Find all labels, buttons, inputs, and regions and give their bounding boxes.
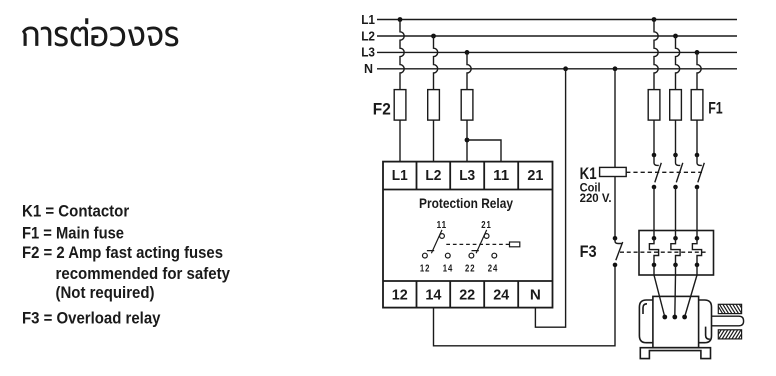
motor terminal node 3 bbox=[682, 315, 687, 320]
svg-text:L2: L2 bbox=[361, 29, 375, 43]
svg-text:11: 11 bbox=[437, 220, 448, 231]
svg-text:L3: L3 bbox=[459, 167, 475, 184]
motor terminal node 1 bbox=[662, 315, 667, 320]
bearing hatch lower bbox=[718, 330, 741, 339]
wire relay 14 to F3aux (control loop) bbox=[434, 267, 616, 346]
overload heater F3a bbox=[649, 236, 658, 267]
node L3-b bbox=[695, 50, 700, 55]
relay internal contact A common ring bbox=[440, 234, 445, 239]
wire overload F3a to motor bbox=[654, 265, 665, 317]
wire coil K1 to contact F3aux bbox=[614, 177, 616, 239]
relay internal contact B common ring bbox=[484, 234, 489, 239]
bus L1 wire bbox=[377, 19, 737, 21]
motor right end cap bbox=[699, 300, 712, 343]
overload relay F3 box bbox=[639, 231, 714, 276]
wire overload F3b to motor bbox=[674, 265, 677, 317]
svg-text:22: 22 bbox=[465, 263, 476, 274]
relay internal contact B terminal 24 ring bbox=[492, 253, 497, 258]
svg-text:22: 22 bbox=[459, 286, 475, 303]
bus N wire bbox=[377, 68, 737, 70]
motor M body center block bbox=[653, 296, 699, 347]
svg-text:N: N bbox=[364, 62, 373, 76]
motor highlight arc right bbox=[706, 327, 710, 340]
svg-text:L1: L1 bbox=[361, 13, 375, 27]
wire overload F3c to motor bbox=[685, 265, 697, 317]
wire branch to relay terminal 11 bbox=[467, 140, 501, 162]
svg-text:Protection Relay: Protection Relay bbox=[419, 195, 513, 211]
svg-text:F1: F1 bbox=[708, 99, 723, 117]
wire drop b (L2 to fuse F2b) bbox=[434, 36, 438, 90]
relay internal actuator box bbox=[510, 242, 520, 247]
overload heater F3b bbox=[671, 236, 680, 267]
wire fuse F1b to contact K1b bbox=[675, 120, 677, 155]
fuse F1b bbox=[670, 90, 682, 121]
wire N to coil K1 bbox=[614, 69, 616, 168]
wire contact K1a to overload F3a bbox=[653, 187, 655, 238]
motor highlight arc left bbox=[643, 304, 647, 314]
svg-text:F3: F3 bbox=[580, 243, 597, 261]
node L1-b bbox=[652, 17, 657, 22]
wire fuse F2c to relay L3 bbox=[466, 120, 468, 162]
wire drop d (L1 to fuse F1a) bbox=[654, 20, 658, 90]
svg-text:220 V.: 220 V. bbox=[580, 191, 612, 205]
motor shaft bbox=[712, 316, 744, 326]
svg-text:12: 12 bbox=[420, 263, 431, 274]
wire fuse F2a to relay L1 bbox=[399, 120, 401, 162]
bus L3 wire bbox=[377, 51, 737, 53]
wire N to relay terminal N bbox=[535, 69, 565, 327]
protection relay U1 box bbox=[383, 162, 553, 308]
motor left end cap bbox=[639, 300, 653, 343]
relay internal contact A blade bbox=[427, 230, 442, 253]
wire contact K1b to overload F3b bbox=[675, 187, 677, 238]
relay internal contact B terminal 22 ring bbox=[469, 253, 474, 258]
svg-text:11: 11 bbox=[493, 167, 509, 184]
dashed link K1 coil to contacts bbox=[626, 171, 702, 173]
node L2-a bbox=[431, 34, 436, 39]
svg-text:21: 21 bbox=[527, 167, 543, 184]
contact F3aux (NC) bbox=[613, 236, 623, 267]
svg-text:recommended for safety: recommended for safety bbox=[56, 265, 231, 283]
wire fuse F1c to contact K1c bbox=[696, 120, 698, 155]
fuse F1a bbox=[648, 90, 660, 121]
wire contact K1c to overload F3c bbox=[696, 187, 698, 238]
relay bottom terminal row line bbox=[383, 280, 553, 282]
svg-text:(Not required): (Not required) bbox=[56, 284, 155, 302]
node L2-b bbox=[673, 34, 678, 39]
svg-text:21: 21 bbox=[481, 220, 492, 231]
svg-text:12: 12 bbox=[392, 286, 408, 303]
motor base bbox=[640, 348, 710, 359]
svg-text:N: N bbox=[530, 286, 541, 303]
wire drop c (L3 to fuse F2c) bbox=[467, 52, 471, 89]
contact K1a bbox=[652, 153, 662, 190]
wire drop a (L1 to fuse F2a) bbox=[400, 20, 404, 90]
dashed link F3aux to heaters bbox=[620, 251, 708, 253]
node N-b bbox=[613, 66, 618, 71]
svg-text:L1: L1 bbox=[392, 167, 408, 184]
motor terminal node 2 bbox=[672, 315, 677, 320]
node branch-11 bbox=[465, 138, 470, 143]
svg-text:F3 = Overload relay: F3 = Overload relay bbox=[22, 309, 161, 327]
svg-text:14: 14 bbox=[443, 263, 454, 274]
contact K1c bbox=[695, 153, 705, 190]
svg-text:L2: L2 bbox=[425, 167, 441, 184]
relay top terminal row line bbox=[383, 189, 553, 191]
node L1-a bbox=[398, 17, 403, 22]
title (Thai: kan to wongchon) bbox=[22, 18, 178, 46]
fuse F2b bbox=[428, 90, 440, 121]
svg-text:F2: F2 bbox=[373, 100, 391, 118]
relay top terminal dividers bbox=[417, 162, 519, 190]
fuse F2a bbox=[394, 90, 406, 121]
svg-text:14: 14 bbox=[425, 286, 442, 303]
svg-text:K1 = Contactor: K1 = Contactor bbox=[22, 202, 130, 220]
svg-text:24: 24 bbox=[488, 263, 499, 274]
coil K1 bbox=[600, 167, 627, 176]
node N-a bbox=[563, 66, 568, 71]
svg-text:L3: L3 bbox=[361, 46, 375, 60]
wire fuse F2b to relay L2 bbox=[433, 120, 435, 162]
wire drop f (L3 to fuse F1c) bbox=[697, 52, 701, 89]
node L3-a bbox=[465, 50, 470, 55]
svg-text:F2 = 2 Amp fast acting fuses: F2 = 2 Amp fast acting fuses bbox=[22, 244, 223, 262]
relay internal dashed mechanical link bbox=[446, 243, 509, 245]
fuse F1c bbox=[691, 90, 703, 121]
wire fuse F1a to contact K1a bbox=[653, 120, 655, 155]
svg-text:24: 24 bbox=[493, 286, 510, 303]
bearing hatch upper bbox=[718, 304, 741, 313]
relay internal contact B blade bbox=[472, 230, 487, 253]
relay bottom terminal dividers bbox=[417, 281, 519, 308]
relay internal contact A terminal 12 ring bbox=[423, 253, 428, 258]
svg-text:F1 = Main fuse: F1 = Main fuse bbox=[22, 224, 124, 242]
wire drop e (L2 to fuse F1b) bbox=[676, 36, 680, 90]
relay internal contact A terminal 14 ring bbox=[445, 253, 450, 258]
bus L2 wire bbox=[377, 35, 737, 37]
overload heater F3c bbox=[692, 236, 701, 267]
fuse F2c bbox=[461, 90, 473, 121]
contact K1b bbox=[673, 153, 683, 190]
